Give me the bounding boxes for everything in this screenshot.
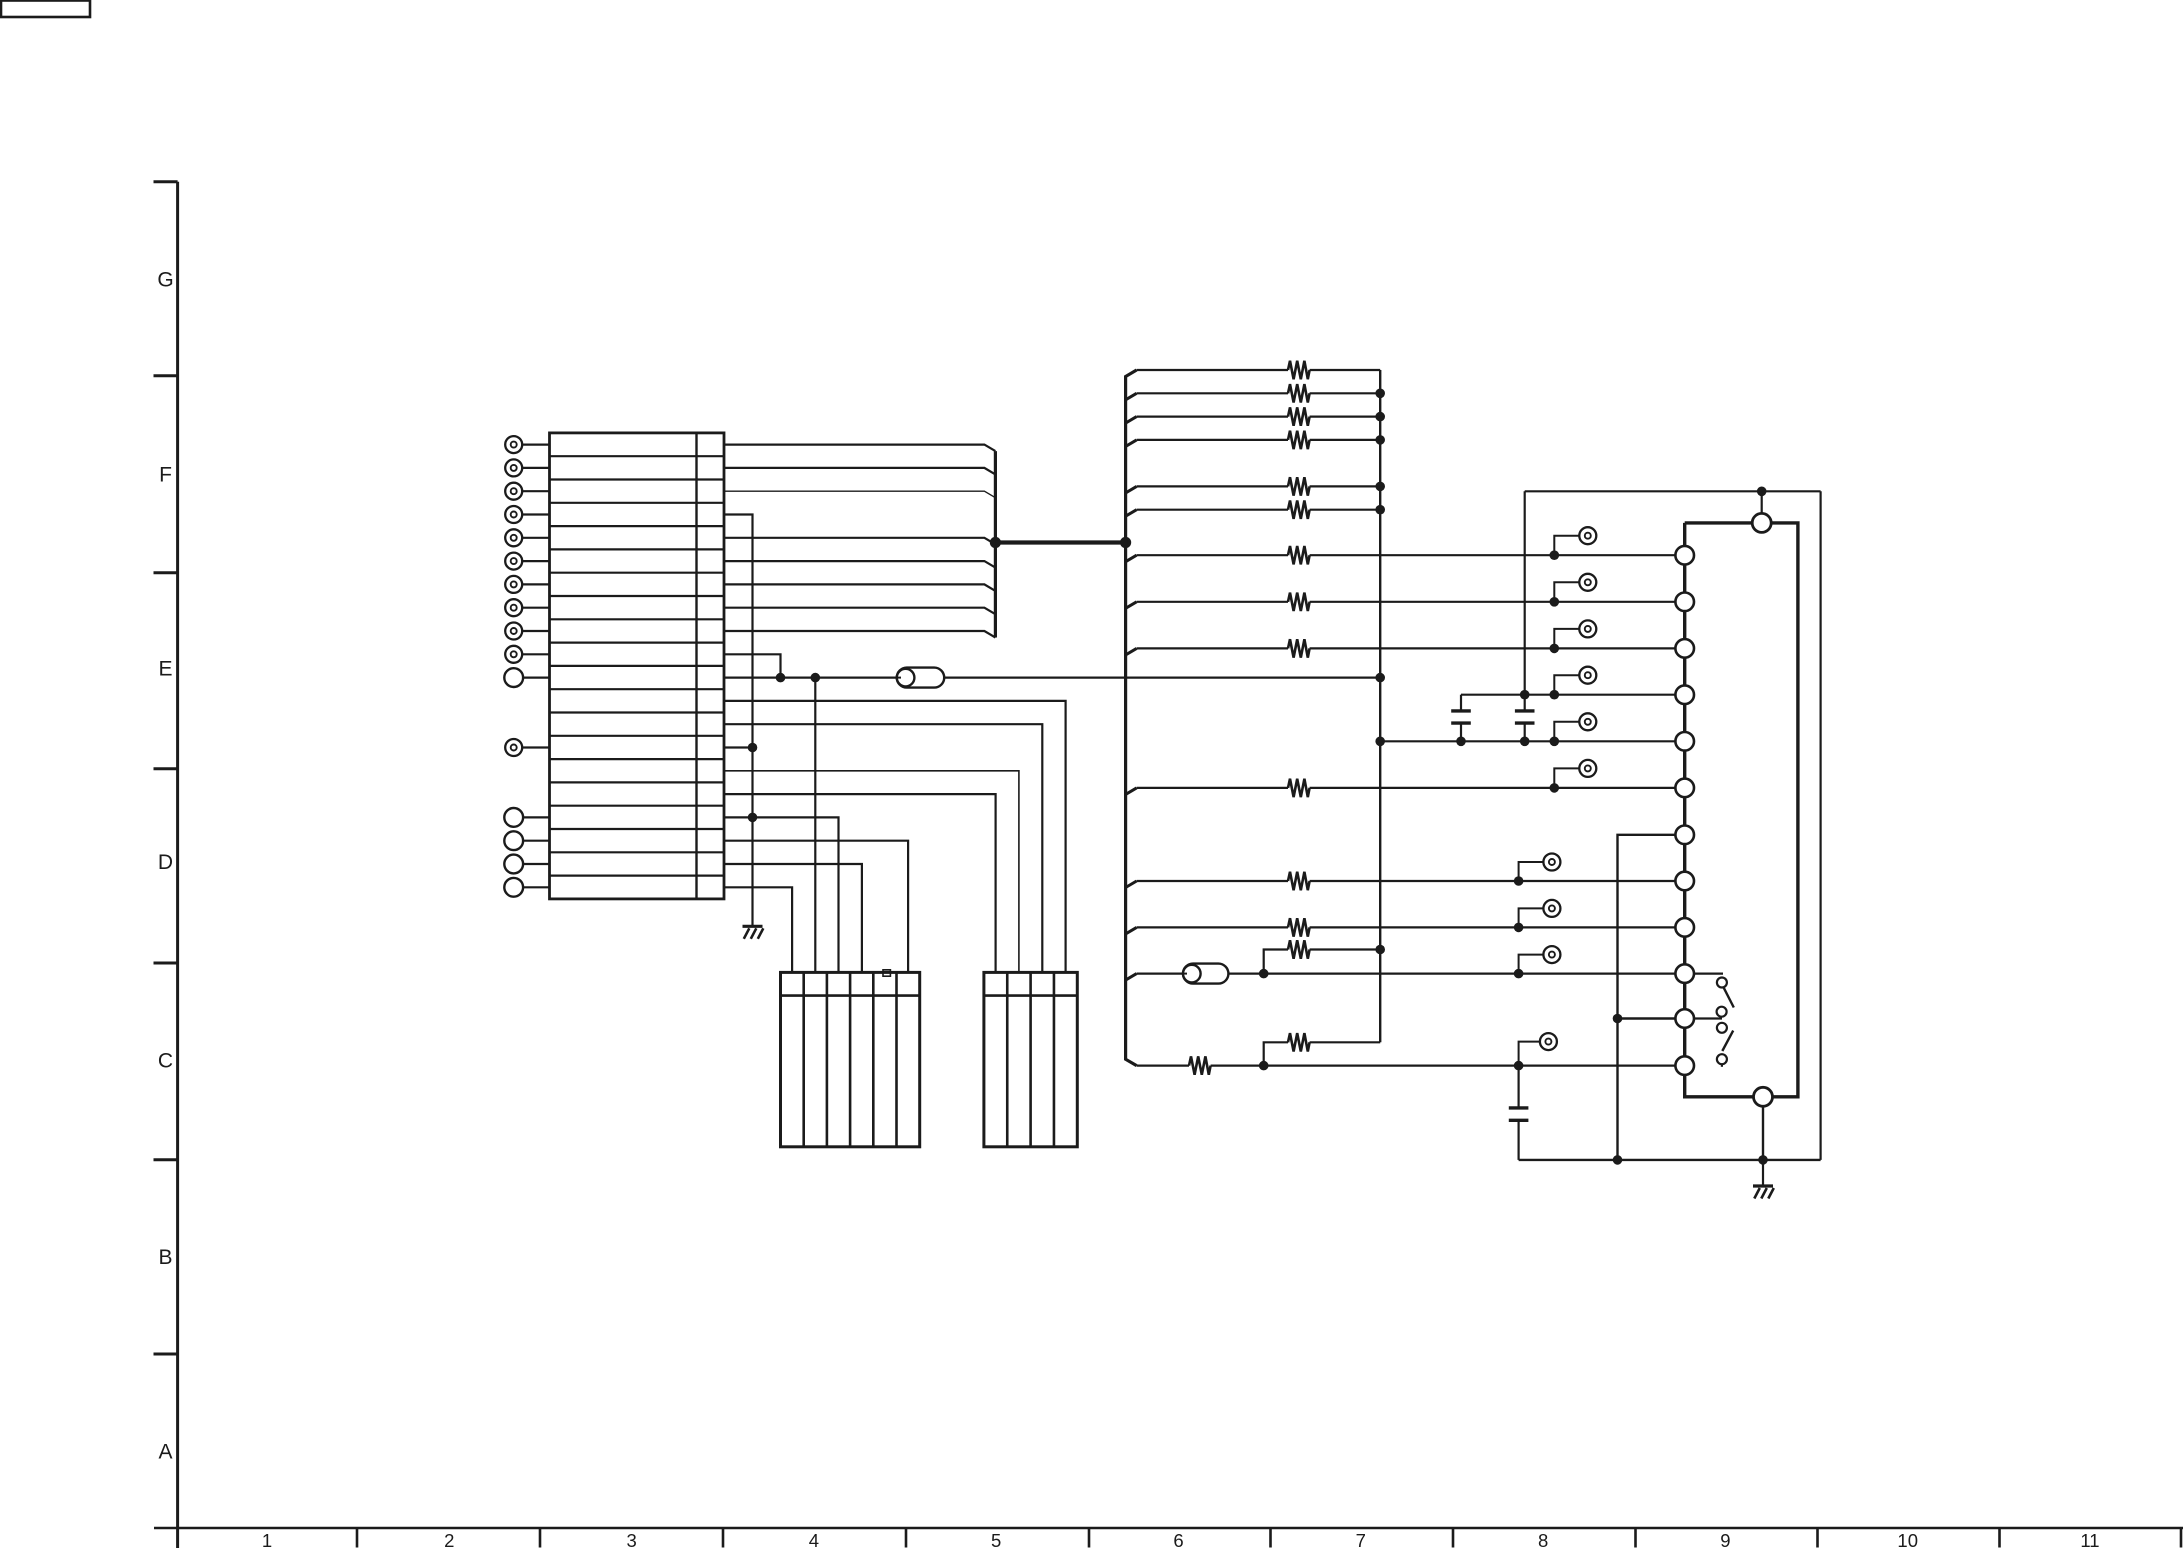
connector CN101 jack pin row 7 xyxy=(505,576,549,593)
junction pin7 net / pin11 wire xyxy=(1613,1014,1623,1024)
ground G101 xyxy=(743,926,764,939)
connector CN101 jack pin row 1 xyxy=(505,436,549,453)
wire CN101 row 2 to bus A xyxy=(724,468,995,475)
wire CN101 row 7 to bus A xyxy=(724,584,995,591)
ferrite bead FB101 xyxy=(897,668,944,688)
connector CN104 pin 10 xyxy=(1675,964,1694,983)
wire CN101 row 4 down to ground xyxy=(724,515,753,926)
wire CN101 row 16 to CN103 pin 1 xyxy=(724,794,996,972)
wire CN101 row 13 to CN103 pin 3 xyxy=(724,724,1042,972)
connector CN101 jack pin row 9 xyxy=(505,623,549,640)
connector CN102 body xyxy=(781,972,920,1146)
svg-text:F: F xyxy=(159,464,172,487)
svg-text:7: 7 xyxy=(1356,1530,1366,1551)
wire caps bottom row net xyxy=(1375,737,1676,747)
switch S101 xyxy=(1694,974,1734,1017)
wire CN101 row 14 stub xyxy=(724,746,753,748)
connector CN101 pin row 17 xyxy=(504,808,549,827)
resistor R110 net xyxy=(1126,779,1676,797)
wire CN101 row 9 to bus A xyxy=(724,631,995,638)
connector CN101 pin row 20 xyxy=(504,878,549,897)
resistor R115 bottom net xyxy=(1137,1056,1676,1074)
connector CN101 body xyxy=(550,433,725,899)
rca jack bottom row xyxy=(1514,1033,1557,1070)
wire CN101 row 6 to bus A xyxy=(724,561,995,568)
ground G102 xyxy=(1753,1160,1774,1199)
wire top rail xyxy=(1525,490,1821,492)
node column vertical wire xyxy=(1379,370,1381,1042)
svg-text:D: D xyxy=(158,851,173,874)
connector CN101 pin row 11 xyxy=(504,668,549,687)
svg-text:A: A xyxy=(158,1441,172,1464)
rca jack row y=555.2 xyxy=(1550,527,1597,560)
wire bead node drop to CN102 pin 2 xyxy=(814,678,816,973)
connector CN101 jack pin row 4 xyxy=(505,506,549,523)
resistor R101 net xyxy=(1137,361,1381,379)
switch S102 xyxy=(1694,1019,1733,1067)
resistor R106 net xyxy=(1126,501,1385,519)
wire caps top row net xyxy=(1461,690,1676,700)
wire CN101 row 15 to CN103 pin 2 xyxy=(724,771,1019,973)
wire to CN104 pin 11 xyxy=(1618,1017,1676,1019)
rca jack row y=973.6 xyxy=(1514,946,1561,978)
junction bus A node xyxy=(990,537,1001,548)
resistor R102 net xyxy=(1126,384,1385,402)
capacitor C103 xyxy=(1509,1066,1529,1160)
wire CN101 row 10 jog down xyxy=(724,654,781,677)
wire CN101 row 17 to CN102 pin 3 xyxy=(724,817,839,972)
connector CN104 pin 11 xyxy=(1675,1009,1694,1028)
junction bead row / CN102 drop xyxy=(811,673,821,683)
rca jack row y=881 xyxy=(1514,854,1561,886)
connector CN101 jack pin row 14 xyxy=(505,739,549,756)
junction bus B node xyxy=(1120,537,1131,548)
svg-text:B: B xyxy=(158,1246,172,1269)
junction row14 tap xyxy=(748,743,758,753)
connector CN104 pin 12 xyxy=(1675,1056,1694,1075)
resistor R113 stepped net xyxy=(1264,940,1385,973)
wire top rail drop to C102 xyxy=(1524,491,1526,694)
connector CN104 pin 5 xyxy=(1675,732,1694,751)
rca jack row y=694.7 xyxy=(1554,667,1596,695)
connector CN104 pin 4 xyxy=(1675,685,1694,704)
resistor R108 net xyxy=(1126,593,1676,611)
rca jack row y=787.9 xyxy=(1550,760,1597,793)
ferrite bead FB102 xyxy=(1183,964,1228,984)
wire CN101 row 12 to CN103 pin 4 xyxy=(724,701,1066,973)
svg-text:6: 6 xyxy=(1173,1530,1183,1551)
svg-text:10: 10 xyxy=(1897,1530,1918,1551)
connector CN104 pin 8 xyxy=(1675,872,1694,891)
rca jack row y=648.4 xyxy=(1550,620,1597,653)
svg-text:G: G xyxy=(157,269,173,292)
resistor R111 net xyxy=(1126,872,1676,890)
wire CN101 row 8 to bus A xyxy=(724,608,995,615)
svg-text:1: 1 xyxy=(262,1530,272,1551)
svg-text:5: 5 xyxy=(991,1530,1001,1551)
connector CN104 pin 3 xyxy=(1675,639,1694,658)
resistor R103 net xyxy=(1126,407,1385,425)
resistor R109 net xyxy=(1126,639,1676,657)
svg-text:4: 4 xyxy=(809,1530,819,1551)
connector CN104 pin 7 xyxy=(1675,826,1694,845)
junction bead2 step xyxy=(1259,969,1269,979)
connector CN103 body xyxy=(984,972,1077,1146)
svg-text:C: C xyxy=(158,1050,173,1073)
rca jack row y=927.4 xyxy=(1514,900,1561,932)
capacitor C101 xyxy=(1451,695,1471,742)
resistor R112 net xyxy=(1126,918,1676,936)
svg-text:8: 8 xyxy=(1538,1530,1548,1551)
junction top rail / CN104 shell xyxy=(1757,487,1767,497)
wire CN101 row 20 to CN102 pin 1 xyxy=(724,887,792,972)
resistor R107 net xyxy=(1126,546,1676,564)
svg-text:E: E xyxy=(158,658,172,681)
junction pin7 net / bottom rail xyxy=(1613,1155,1623,1165)
connector CN101 pin row 18 xyxy=(504,831,549,850)
connector CN101 jack pin row 6 xyxy=(505,553,549,570)
connector CN101 jack pin row 2 xyxy=(505,459,549,476)
connector CN104 pin 9 xyxy=(1675,918,1694,937)
connector CN104 pin 1 xyxy=(1675,546,1694,565)
wire CN101 row 3 to bus A xyxy=(724,491,995,498)
svg-text:9: 9 xyxy=(1720,1530,1730,1551)
resistor R114 stepped net xyxy=(1264,1033,1381,1066)
bus A vertical (wire bundle) xyxy=(994,451,997,637)
wire bottom return rail xyxy=(1519,1159,1821,1161)
wire CN101 row 11 bead net xyxy=(724,676,1380,678)
connector CN104 pin 6 xyxy=(1675,779,1694,798)
connector CN104 body xyxy=(1685,523,1798,1097)
bus B vertical (wire bundle) xyxy=(1126,370,1137,1066)
wire CN101 row 19 to CN102 pin 4 xyxy=(724,864,862,972)
wire CN101 row 5 to bus A xyxy=(724,538,995,545)
rca jack row y=741.3 xyxy=(1554,713,1596,741)
connector CN101 jack pin row 8 xyxy=(505,599,549,616)
wire right return rail xyxy=(1819,491,1821,1160)
rca jack row y=601.8 xyxy=(1550,574,1597,607)
junction bead row at node column xyxy=(1375,673,1385,683)
svg-text:11: 11 xyxy=(2080,1530,2099,1551)
connector CN101 jack pin row 3 xyxy=(505,483,549,500)
junction bead row / row10 xyxy=(776,673,786,683)
connector CN104 shell pin top xyxy=(1752,491,1771,532)
svg-text:3: 3 xyxy=(626,1530,636,1551)
svg-text:2: 2 xyxy=(444,1530,454,1551)
wire CN101 row 1 to bus A xyxy=(724,445,995,452)
wire CN101 row 18 to CN102 pin 6 xyxy=(724,841,908,973)
wire bead2 net row xyxy=(1126,974,1676,981)
connector CN102 pin1 marker xyxy=(883,970,890,976)
connector CN101 jack pin row 10 xyxy=(505,646,549,663)
resistor R105 net xyxy=(1126,477,1385,495)
wire bus A to bus B thick link xyxy=(995,540,1125,544)
junction row17 tap xyxy=(748,813,758,823)
connector CN101 pin row 19 xyxy=(504,855,549,874)
wire CN104 pin7 L-net down xyxy=(1618,835,1676,1160)
connector CN104 pin 2 xyxy=(1675,593,1694,612)
resistor R104 net xyxy=(1126,431,1385,449)
capacitor C102 xyxy=(1515,695,1535,742)
connector CN104 shell pin bottom xyxy=(1754,1087,1773,1160)
connector CN101 jack pin row 5 xyxy=(505,529,549,546)
junction bottom rail / ground xyxy=(1758,1155,1768,1165)
